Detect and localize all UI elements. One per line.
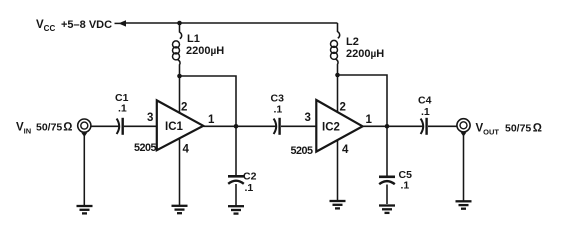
svg-text:2200µH: 2200µH: [186, 45, 224, 57]
svg-text:+5–8 VDC: +5–8 VDC: [61, 19, 112, 31]
svg-text:.1: .1: [245, 182, 254, 194]
svg-text:50/75Ω: 50/75Ω: [505, 121, 542, 135]
svg-text:50/75Ω: 50/75Ω: [36, 120, 73, 134]
svg-text:4: 4: [183, 144, 190, 156]
svg-text:2200µH: 2200µH: [346, 48, 384, 60]
svg-text:1: 1: [366, 114, 373, 126]
svg-text:1: 1: [208, 114, 215, 126]
svg-text:C2: C2: [243, 171, 257, 183]
svg-text:IC1: IC1: [165, 121, 184, 133]
svg-text:.1: .1: [401, 180, 410, 192]
svg-text:.1: .1: [274, 104, 283, 116]
svg-text:4: 4: [342, 144, 349, 156]
svg-text:C4: C4: [418, 95, 432, 107]
svg-text:L2: L2: [346, 36, 359, 48]
svg-text:.1: .1: [118, 103, 127, 115]
svg-text:3: 3: [305, 112, 311, 124]
svg-text:5205: 5205: [134, 142, 157, 154]
svg-text:5205: 5205: [291, 145, 314, 157]
svg-text:L1: L1: [187, 33, 200, 45]
svg-text:IC2: IC2: [322, 122, 340, 134]
svg-text:.1: .1: [421, 106, 430, 118]
svg-text:3: 3: [147, 112, 153, 124]
svg-text:2: 2: [181, 102, 187, 114]
svg-text:2: 2: [340, 102, 346, 114]
